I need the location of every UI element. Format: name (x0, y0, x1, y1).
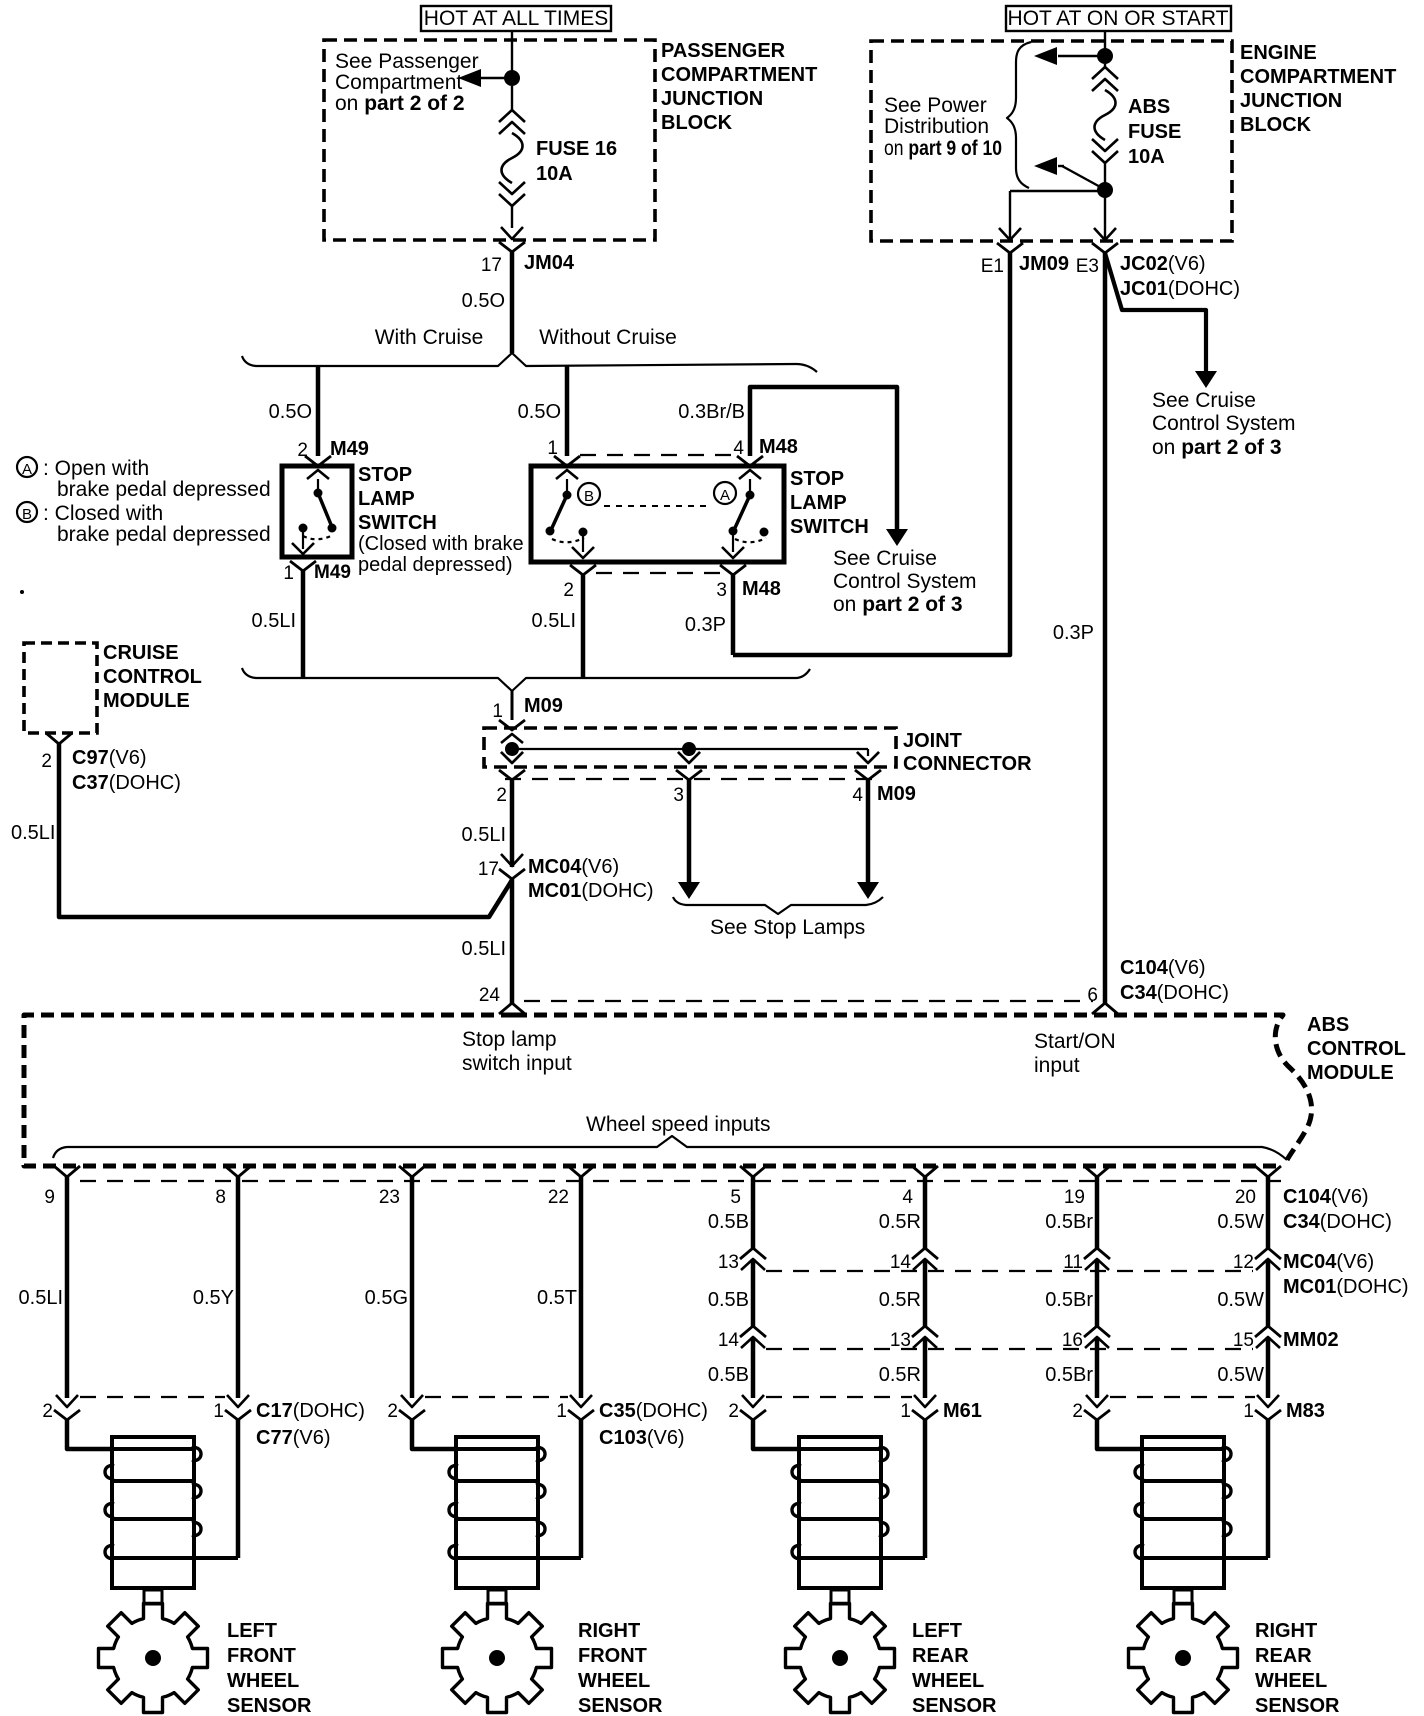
svg-text:1: 1 (900, 1401, 911, 1422)
svg-text:PASSENGER: PASSENGER (661, 40, 786, 62)
svg-text:SENSOR: SENSOR (227, 1695, 312, 1716)
svg-text:Control System: Control System (833, 570, 977, 593)
connector pin E3 JC02(V6)/JC01(DOHC) (1094, 228, 1116, 240)
connector pin 2 C97(V6)/C37(DOHC) (46, 733, 72, 744)
wire from dot to E3 (1104, 190, 1106, 241)
connector mating line MC04 row (766, 1270, 1253, 1272)
svg-text:4: 4 (902, 1187, 913, 1208)
sensor coil RIGHT FRONT wheel sensor (456, 1437, 538, 1588)
connector pin 1 sensor 1 (227, 1395, 249, 1407)
svg-text:0.5R: 0.5R (879, 1211, 921, 1233)
svg-text:MM02: MM02 (1283, 1329, 1339, 1351)
connector pin 2 sensor 2 (401, 1395, 423, 1407)
svg-text:FRONT: FRONT (578, 1645, 647, 1667)
connector pin 2 M09 (501, 752, 523, 763)
sensor coil LEFT REAR wheel sensor (799, 1437, 881, 1588)
connector pin 13 MM02 (912, 1326, 938, 1337)
svg-text:A: A (22, 461, 32, 478)
svg-text:1: 1 (492, 701, 503, 722)
svg-text:M49: M49 (314, 562, 351, 583)
svg-text:on part 2 of 3: on part 2 of 3 (833, 593, 963, 616)
svg-text:0.3P: 0.3P (685, 614, 726, 636)
svg-text:JM09: JM09 (1019, 253, 1069, 275)
svg-text:M48: M48 (759, 436, 798, 458)
wire M09 pin3 to stop lamps (687, 780, 692, 882)
svg-text:SENSOR: SENSOR (578, 1695, 663, 1716)
wire 0.5O from JM04 down to cruise split (510, 252, 515, 353)
svg-text:0.5W: 0.5W (1217, 1364, 1264, 1386)
svg-text:0.5O: 0.5O (462, 290, 505, 312)
svg-text:C37(DOHC): C37(DOHC) (72, 772, 181, 794)
connector mating line ABS bottom pins (80, 1180, 1281, 1182)
svg-text:0.5G: 0.5G (365, 1287, 408, 1309)
wire from HOT AT ON OR START into block (1104, 31, 1106, 56)
svg-text:0.5Br: 0.5Br (1045, 1289, 1093, 1311)
svg-text:2: 2 (41, 751, 52, 772)
svg-text:See Passenger: See Passenger (335, 50, 479, 73)
svg-text:10A: 10A (1128, 146, 1165, 168)
svg-text:on part 2 of 2: on part 2 of 2 (335, 92, 465, 115)
node junction dot below ABS fuse (1097, 182, 1113, 198)
connector pin 2 M49 (305, 456, 331, 466)
connector pin 15 MM02 (1255, 1326, 1281, 1337)
svg-text:2: 2 (387, 1401, 398, 1422)
connector pin 19 ABS wheel input (1084, 1166, 1110, 1177)
connector pin 16 MM02 (1084, 1326, 1110, 1337)
svg-text:0.5LI: 0.5LI (252, 610, 296, 632)
svg-text:Start/ON: Start/ON (1034, 1030, 1116, 1053)
wire 0.5LI cruise module to MC04 splice (59, 744, 512, 917)
wire 0.5R rear column middle (923, 1259, 928, 1326)
svg-text:0.5Br: 0.5Br (1045, 1364, 1093, 1386)
brace for See Power Distribution (1007, 42, 1031, 188)
svg-text:MODULE: MODULE (1307, 1062, 1394, 1084)
svg-text:C104(V6): C104(V6) (1283, 1186, 1369, 1208)
connector pin 3 M48 (722, 547, 744, 558)
svg-text:With Cruise: With Cruise (375, 326, 484, 349)
svg-text:C34(DOHC): C34(DOHC) (1120, 982, 1229, 1004)
connector pin 11 MC04(V6)/MC01(DOHC) (1084, 1248, 1110, 1259)
cruise control module dashed box (24, 643, 97, 733)
svg-text:input: input (1034, 1054, 1080, 1077)
connector pin 2 sensor 3 (742, 1395, 764, 1407)
svg-text:23: 23 (379, 1187, 400, 1208)
svg-text:CONTROL: CONTROL (103, 666, 202, 688)
wire 0.5LI from M49 to merge bracket (301, 571, 306, 678)
svg-text:CONTROL: CONTROL (1307, 1038, 1406, 1060)
svg-text:0.5B: 0.5B (708, 1289, 749, 1311)
svg-text:2: 2 (297, 440, 308, 461)
svg-text:2: 2 (728, 1401, 739, 1422)
arrow to See Passenger Compartment (481, 77, 512, 79)
svg-text:B: B (22, 506, 32, 523)
svg-text:on part 2 of 3: on part 2 of 3 (1152, 436, 1282, 459)
svg-text:0.5B: 0.5B (708, 1364, 749, 1386)
svg-text:See Cruise: See Cruise (1152, 389, 1256, 412)
svg-text:STOP: STOP (358, 464, 412, 486)
svg-text:1: 1 (547, 438, 558, 459)
svg-text:pedal depressed): pedal depressed) (358, 554, 513, 576)
svg-text:See Power: See Power (884, 94, 987, 117)
connector pin 17 JM04 (501, 227, 523, 239)
svg-text:ABS: ABS (1307, 1014, 1349, 1036)
svg-text:C104(V6): C104(V6) (1120, 957, 1206, 979)
svg-text:0.5LI: 0.5LI (11, 822, 55, 844)
svg-text:WHEEL: WHEEL (912, 1670, 984, 1692)
svg-text:JUNCTION: JUNCTION (1240, 90, 1342, 112)
svg-text:5: 5 (730, 1187, 741, 1208)
svg-text:SENSOR: SENSOR (912, 1695, 997, 1716)
wire 0.5Br rear column middle (1095, 1259, 1100, 1326)
split bracket to With/Without cruise branches (242, 353, 817, 372)
passenger compartment junction block (dashed box) (324, 40, 655, 240)
connector pin 1 M49 (292, 543, 314, 554)
connector pin 20 ABS wheel input (1255, 1166, 1281, 1177)
svg-text:1: 1 (556, 1401, 567, 1422)
bracket Wheel speed inputs (53, 1136, 1287, 1160)
connector pin 4 ABS wheel input (912, 1166, 938, 1177)
circle A annotation (714, 482, 736, 504)
svg-text:JC01(DOHC): JC01(DOHC) (1120, 278, 1240, 300)
svg-text:1: 1 (1243, 1401, 1254, 1422)
connector pin 4 M09 (867, 749, 869, 756)
wire from fuse to lower junction dot (1104, 163, 1106, 190)
ABS control module dashed box (24, 1015, 1283, 1166)
wire 0.5Y front-right column (236, 1177, 241, 1398)
svg-text:SWITCH: SWITCH (358, 512, 437, 534)
connector mating line sensor 2 (425, 1396, 568, 1398)
connector mating line M09 bottom (505, 778, 875, 780)
svg-text:0.5LI: 0.5LI (462, 824, 506, 846)
wire from E1 down and left to M48 pin 3 (733, 253, 1010, 655)
stray mark (20, 590, 24, 594)
node junction dot top of ABS fuse (1097, 48, 1113, 64)
connector pin 4 M48 (737, 456, 763, 466)
wire to See Cruise Control System (right) (1105, 253, 1206, 371)
svg-text:JM04: JM04 (524, 252, 575, 274)
svg-text:MC04(V6): MC04(V6) (1283, 1251, 1374, 1273)
svg-text:HOT AT ON OR START: HOT AT ON OR START (1008, 7, 1229, 30)
svg-text:MC01(DOHC): MC01(DOHC) (1283, 1276, 1409, 1298)
svg-text:0.5Y: 0.5Y (193, 1287, 234, 1309)
stop lamp switch M48 contact A (749, 479, 751, 491)
svg-text:MC01(DOHC): MC01(DOHC) (528, 880, 654, 902)
svg-text:LAMP: LAMP (358, 488, 415, 510)
wire 0.5W rear column lower (1266, 1337, 1271, 1398)
svg-text:SWITCH: SWITCH (790, 516, 869, 538)
tone wheel gear RIGHT REAR (1129, 1604, 1238, 1713)
connector mating line sensor 4 (1110, 1396, 1255, 1398)
sensor stem (1174, 1590, 1192, 1604)
svg-text:0.3Br/B: 0.3Br/B (678, 401, 745, 423)
svg-text:Stop lamp: Stop lamp (462, 1028, 557, 1051)
svg-text:FRONT: FRONT (227, 1645, 296, 1667)
svg-text:A: A (720, 487, 730, 504)
svg-text:4: 4 (852, 785, 863, 806)
wire 0.5G front-left column (410, 1177, 415, 1398)
connector pin 2 sensor 4 (1086, 1395, 1108, 1407)
sensor stem (488, 1590, 506, 1604)
svg-text:0.5R: 0.5R (879, 1289, 921, 1311)
svg-text:JUNCTION: JUNCTION (661, 88, 763, 110)
bracket See Stop Lamps (673, 897, 883, 914)
svg-text:COMPARTMENT: COMPARTMENT (661, 64, 817, 86)
connector pin 1 sensor 2 (570, 1395, 592, 1407)
joint connector bus wire (512, 748, 868, 750)
svg-text:0.5R: 0.5R (879, 1364, 921, 1386)
svg-text:1: 1 (283, 563, 294, 584)
svg-text:C103(V6): C103(V6) (599, 1427, 685, 1449)
svg-text:22: 22 (548, 1187, 569, 1208)
node dot M09 pin2 (505, 742, 519, 756)
connector pin 8 ABS wheel input (225, 1166, 251, 1177)
svg-text:REAR: REAR (1255, 1645, 1312, 1667)
wire 0.3P from M48 pin 3 (731, 575, 736, 655)
connector mating line MM02 row (766, 1348, 1253, 1350)
svg-text:ABS: ABS (1128, 96, 1170, 118)
connector 17 MC04(V6)/MC01(DOHC) (501, 854, 523, 866)
tone wheel gear LEFT FRONT (99, 1604, 208, 1713)
svg-text:JOINT: JOINT (903, 730, 962, 752)
connector pin 1 M09 (499, 720, 525, 730)
svg-text:MODULE: MODULE (103, 690, 190, 712)
fuse ABS FUSE 10A (1104, 64, 1106, 69)
svg-text:WHEEL: WHEEL (227, 1670, 299, 1692)
svg-text:20: 20 (1235, 1187, 1256, 1208)
wire 0.5Br rear column upper (1095, 1177, 1100, 1248)
svg-text:0.5B: 0.5B (708, 1211, 749, 1233)
svg-text:C97(V6): C97(V6) (72, 747, 147, 769)
wire 0.3Br/B from M48 pin 4 to cruise arrow (750, 387, 897, 529)
svg-text:17: 17 (478, 859, 499, 880)
svg-text:switch input: switch input (462, 1052, 572, 1075)
label box HOT AT ALL TIMES (421, 6, 611, 31)
svg-text:C34(DOHC): C34(DOHC) (1283, 1211, 1392, 1233)
wire 0.5R rear column upper (923, 1177, 928, 1248)
svg-text:E3: E3 (1076, 256, 1099, 277)
engine compartment junction block (dashed box) (871, 41, 1232, 241)
connector pin 1 sensor 4 (1257, 1395, 1279, 1407)
svg-text:(Closed with brake: (Closed with brake (358, 533, 524, 555)
svg-text:1: 1 (213, 1401, 224, 1422)
svg-text:0.3P: 0.3P (1053, 622, 1094, 644)
svg-text:Distribution: Distribution (884, 115, 989, 138)
svg-text:2: 2 (563, 580, 574, 601)
stop lamp switch M48 box (531, 466, 784, 562)
connector pin 13 MC04(V6)/MC01(DOHC) (740, 1248, 766, 1259)
connector pin 24 (stop lamp switch input) (499, 1003, 525, 1014)
svg-text:CONNECTOR: CONNECTOR (903, 753, 1032, 775)
fuse FUSE 16 10A (511, 86, 513, 112)
svg-text:24: 24 (479, 985, 501, 1006)
svg-text:19: 19 (1064, 1187, 1085, 1208)
connector pin E1 JM09 (999, 228, 1021, 240)
svg-text:Control System: Control System (1152, 412, 1296, 435)
switch position link dashed line (604, 505, 712, 507)
stop lamp switch M49 contacts (317, 479, 319, 490)
svg-text:0.5LI: 0.5LI (19, 1287, 63, 1309)
svg-text:Without Cruise: Without Cruise (539, 326, 677, 349)
svg-text:0.5O: 0.5O (269, 401, 312, 423)
svg-text:0.5W: 0.5W (1217, 1289, 1264, 1311)
svg-text:RIGHT: RIGHT (1255, 1620, 1317, 1642)
svg-text:9: 9 (44, 1187, 55, 1208)
svg-text:Wheel speed inputs: Wheel speed inputs (586, 1113, 770, 1136)
connector mating line sensor 3 (766, 1396, 912, 1398)
wire 0.5LI from MC04 to ABS pin 24 (510, 879, 515, 1003)
connector pin 5 ABS wheel input (740, 1166, 766, 1177)
wire 0.5O with-cruise branch (316, 366, 321, 456)
svg-text:17: 17 (481, 255, 502, 276)
legend circle A : Open with brake pedal depressed (17, 457, 37, 477)
svg-text:on part 9 of 10: on part 9 of 10 (884, 137, 1002, 160)
svg-text:M09: M09 (524, 695, 563, 717)
connector pin 23 ABS wheel input (399, 1166, 425, 1177)
wire 0.5B rear column upper (751, 1177, 756, 1248)
wire 0.5LI from M48 pin 2 to merge bracket (581, 575, 586, 678)
svg-text:brake pedal depressed: brake pedal depressed (57, 523, 271, 546)
arrow left to power distribution (top) (1058, 55, 1105, 57)
svg-text:C77(V6): C77(V6) (256, 1427, 331, 1449)
connector mating line sensor 1 (80, 1396, 225, 1398)
svg-text:JC02(V6): JC02(V6) (1120, 253, 1206, 275)
tone wheel gear RIGHT FRONT (443, 1604, 552, 1713)
connector pin 9 ABS wheel input (54, 1166, 80, 1177)
wire 0.5R rear column lower (923, 1337, 928, 1398)
svg-text:0.5W: 0.5W (1217, 1211, 1264, 1233)
svg-text:: Closed with: : Closed with (43, 502, 163, 525)
svg-text:LEFT: LEFT (227, 1620, 277, 1642)
svg-text:Compartment: Compartment (335, 71, 462, 94)
connector mating line M48 top (580, 454, 737, 456)
wire M09 pin4 to stop lamps (866, 780, 871, 882)
sensor coil RIGHT REAR wheel sensor (1142, 1437, 1224, 1588)
wire 0.5Br rear column lower (1095, 1337, 1100, 1398)
svg-text:LEFT: LEFT (912, 1620, 962, 1642)
svg-text:SENSOR: SENSOR (1255, 1695, 1340, 1716)
tone wheel gear LEFT REAR (786, 1604, 895, 1713)
svg-text:4: 4 (733, 438, 744, 459)
svg-text:See Cruise: See Cruise (833, 547, 937, 570)
svg-text:0.5T: 0.5T (537, 1287, 577, 1309)
svg-text:3: 3 (673, 785, 684, 806)
svg-text:2: 2 (42, 1401, 53, 1422)
connector pin 2 sensor 1 (56, 1395, 78, 1407)
svg-text:E1: E1 (981, 256, 1004, 277)
svg-text:WHEEL: WHEEL (1255, 1670, 1327, 1692)
sensor stem (831, 1590, 849, 1604)
connector pin 12 MC04(V6)/MC01(DOHC) (1255, 1248, 1281, 1259)
svg-text:MC04(V6): MC04(V6) (528, 856, 619, 878)
circle B annotation (578, 483, 600, 505)
wire 0.5W rear column upper (1266, 1177, 1271, 1248)
connector mating line M48 bottom (596, 572, 720, 574)
svg-text:0.5O: 0.5O (518, 401, 561, 423)
connector pin 1 sensor 3 (914, 1395, 936, 1407)
svg-text:C17(DOHC): C17(DOHC) (256, 1400, 365, 1422)
connector pin 14 MC04(V6)/MC01(DOHC) (912, 1248, 938, 1259)
svg-text:M83: M83 (1286, 1400, 1325, 1422)
stop lamp switch M49 box (282, 466, 352, 557)
svg-text:2: 2 (496, 785, 507, 806)
svg-text:See Stop Lamps: See Stop Lamps (710, 916, 865, 939)
connector pin 3 M09 (688, 749, 690, 756)
wire from HOT AT ALL TIMES into block (511, 31, 513, 78)
wire branch to E1 (1010, 190, 1105, 192)
wire 0.5LI from M09 pin 2 (510, 780, 515, 867)
svg-text:13: 13 (718, 1252, 739, 1273)
svg-text:6: 6 (1087, 985, 1098, 1006)
svg-text:C35(DOHC): C35(DOHC) (599, 1400, 708, 1422)
svg-text:14: 14 (718, 1330, 740, 1351)
svg-text:M48: M48 (742, 578, 781, 600)
wire 0.5B rear column middle (751, 1259, 756, 1326)
wire 0.3P from E3 down to ABS control module (1103, 253, 1108, 1003)
stop lamp switch M48 contact B (566, 479, 568, 491)
connector pin 2 M48 (572, 547, 594, 558)
svg-text:ENGINE: ENGINE (1240, 42, 1317, 64)
svg-text:: Open with: : Open with (43, 457, 149, 480)
svg-text:2: 2 (1072, 1401, 1083, 1422)
wire 0.5W rear column middle (1266, 1259, 1271, 1326)
svg-text:FUSE: FUSE (1128, 121, 1181, 143)
svg-text:WHEEL: WHEEL (578, 1670, 650, 1692)
connector pin 6 C104(V6)/C34(DOHC) (1092, 1003, 1118, 1014)
legend circle B : Closed with brake pedal depressed (17, 502, 37, 522)
svg-text:M09: M09 (877, 783, 916, 805)
merge bracket to M09 (242, 668, 810, 691)
svg-text:8: 8 (215, 1187, 226, 1208)
wire 0.5LI front-left column (65, 1177, 70, 1398)
node junction dot on feed wire (504, 70, 520, 86)
wire from bracket to joint connector pin 1 (511, 691, 514, 720)
svg-text:brake pedal depressed: brake pedal depressed (57, 478, 271, 501)
joint connector dashed box (484, 728, 896, 767)
svg-text:BLOCK: BLOCK (1240, 114, 1312, 136)
svg-text:RIGHT: RIGHT (578, 1620, 640, 1642)
svg-text:M49: M49 (330, 438, 369, 460)
wire 0.5B rear column lower (751, 1337, 756, 1398)
svg-text:FUSE 16: FUSE 16 (536, 138, 617, 160)
svg-text:0.5Br: 0.5Br (1045, 1211, 1093, 1233)
svg-text:CRUISE: CRUISE (103, 642, 179, 664)
svg-text:10A: 10A (536, 163, 573, 185)
svg-text:0.5LI: 0.5LI (532, 610, 576, 632)
sensor stem (144, 1590, 162, 1604)
wire 0.5T front-right column (579, 1177, 584, 1398)
svg-text:STOP: STOP (790, 468, 844, 490)
node dot M09 pin3 (682, 742, 696, 756)
connector mating line ABS top pins (524, 1000, 1093, 1002)
svg-text:COMPARTMENT: COMPARTMENT (1240, 66, 1396, 88)
svg-text:LAMP: LAMP (790, 492, 847, 514)
svg-text:M61: M61 (943, 1400, 982, 1422)
svg-text:0.5LI: 0.5LI (462, 938, 506, 960)
connector pin 22 ABS wheel input (568, 1166, 594, 1177)
connector pin 1 M48 (554, 456, 580, 466)
wire 0.5O without-cruise branch (565, 366, 570, 456)
svg-text:BLOCK: BLOCK (661, 112, 733, 134)
svg-text:HOT AT ALL TIMES: HOT AT ALL TIMES (424, 7, 608, 30)
arrow left to power distribution (bottom) (1034, 157, 1057, 175)
svg-text:3: 3 (716, 580, 727, 601)
sensor coil LEFT FRONT wheel sensor (112, 1437, 194, 1588)
label box HOT AT ON OR START (1006, 6, 1231, 31)
svg-text:REAR: REAR (912, 1645, 969, 1667)
connector pin 14 MM02 (740, 1326, 766, 1337)
svg-text:B: B (584, 488, 594, 505)
